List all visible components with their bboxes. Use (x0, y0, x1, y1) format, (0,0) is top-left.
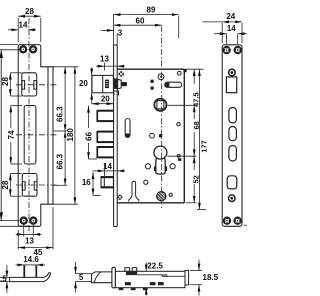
dim 14 top (8, 28, 36, 31)
middle view: small circle left of cylinder (145, 164, 150, 169)
dim 28 top (18, 15, 41, 42)
dim 20 vertical (latch height) (90, 68, 93, 104)
svg-text:13: 13 (25, 237, 34, 246)
svg-text:66.3: 66.3 (55, 106, 64, 122)
middle view: dark square right (178, 158, 181, 161)
dim 74 left (9, 106, 22, 165)
svg-text:14: 14 (19, 21, 28, 30)
svg-text:28: 28 (1, 180, 10, 189)
svg-text:14.6: 14.6 (23, 255, 39, 264)
bottom-left view: folded lug (24, 265, 36, 277)
dim 3 faceplate thickness (101, 29, 117, 45)
middle view: top slot with dark end (165, 82, 182, 87)
dim 66.3 upper right of strike plate (53, 67, 78, 131)
dim 14 deadbolt to plate (93, 163, 125, 176)
svg-text:13: 13 (100, 55, 109, 64)
dim .5 plate thickness (0, 265, 10, 293)
middle right: extension lines (186, 69, 207, 209)
middle view: deadbolt block (101, 177, 113, 188)
middle view: bolt stack rect 3 (97, 146, 113, 158)
svg-text:60: 60 (136, 17, 145, 26)
middle view: small circles mid left (150, 133, 155, 138)
right view: slot 1 (229, 108, 237, 123)
dim 45 bottom (18, 207, 53, 250)
dim 14.6 (16, 264, 46, 267)
svg-text:24: 24 (226, 12, 235, 21)
middle view: trumpet tab (129, 181, 139, 201)
svg-text:28: 28 (1, 77, 10, 86)
case top-right corner mark (183, 69, 186, 72)
middle view: small circle near knurl (169, 193, 172, 196)
svg-text:66: 66 (85, 132, 94, 141)
left view: bottom screw holes (21, 218, 37, 224)
svg-text:68: 68 (192, 121, 201, 129)
left edge cut-off dimension line (0, 50, 3, 221)
middle view: vertical centerline through hub/cylinder (161, 26, 163, 210)
middle view: small circle top right (178, 71, 182, 75)
left view: top screw holes (20, 46, 36, 52)
dim 14 right view (214, 32, 247, 44)
middle view: small circle right (177, 123, 180, 126)
middle view: latch bolt box (92, 75, 127, 95)
middle view: top screw on faceplate (119, 71, 124, 76)
middle view: bolt stack rect 2 (97, 131, 113, 143)
svg-text:66.3: 66.3 (55, 153, 64, 169)
middle view: upper slot (125, 119, 130, 138)
dim 180 right of strike plate (53, 67, 78, 204)
dim 28 left lower (9, 174, 22, 197)
middle view: small squares top (151, 80, 154, 83)
right view: deadbolt window (227, 176, 237, 189)
bottom-middle view: interior line and notch (137, 275, 185, 277)
bottom-left view: strike plate profile (10, 273, 51, 282)
dim 60 (114, 24, 162, 27)
dim 52 (193, 156, 196, 203)
right view: upper screw hole with dot (229, 69, 236, 76)
svg-text:16: 16 (82, 178, 91, 187)
right view: corner tick (244, 224, 248, 226)
bottom-middle view: latch bolt top view (92, 272, 119, 283)
dim 68 (193, 105, 196, 156)
middle view: small circle above knurl (144, 180, 148, 184)
dim 47.5 (193, 69, 196, 105)
middle view: lock case outline (117, 69, 184, 203)
right view: slot 2 (229, 127, 237, 141)
dim 22.5 (145, 262, 148, 295)
dim 89 (114, 13, 179, 45)
svg-text:28: 28 (25, 7, 34, 16)
dim 66.3 lower right of strike plate (53, 131, 67, 185)
middle view: bolt stack rect 1 (97, 110, 113, 122)
right view: bottom screws (224, 218, 241, 224)
dim 28 left upper (9, 73, 22, 96)
middle view: small circle lower right (170, 164, 175, 169)
dim 18.5 (190, 260, 202, 296)
middle view: follower hub (154, 99, 166, 111)
left view: deadbolt cutout middle (24, 106, 36, 165)
bottom-middle view: case body (115, 271, 185, 287)
middle view: cylinder extension line (168, 155, 197, 157)
middle view: knurled adjuster (157, 192, 166, 201)
svg-text:177: 177 (200, 140, 209, 153)
bottom-middle view: right end cap (185, 270, 189, 285)
svg-text:20: 20 (79, 79, 88, 88)
svg-text:89: 89 (147, 6, 156, 15)
svg-text:22.5: 22.5 (147, 262, 163, 271)
left edge cut-off dimension extensions (0, 45, 29, 227)
right view: slot 3 (229, 146, 237, 161)
svg-text:20: 20 (101, 95, 110, 104)
dim 20 horizontal (92, 102, 114, 105)
dim 5 latch height (74, 262, 91, 293)
left view: latch cutout top (22, 73, 37, 96)
left view: latch cutout bottom (22, 174, 37, 197)
svg-text:14: 14 (227, 24, 236, 33)
right view: top screws (224, 47, 241, 53)
svg-text:3: 3 (118, 29, 123, 38)
dim 13 bottom (16, 224, 42, 237)
bottom-middle view: dark band (126, 272, 137, 275)
bottom-middle view: faceplate bar (112, 267, 116, 288)
svg-text:5: 5 (79, 273, 84, 282)
right view: faceplate front (222, 45, 242, 227)
middle view: tiny circle on cylinder ext (177, 154, 180, 157)
left view: vertical centerline (28, 18, 30, 233)
right view: latch window (226, 77, 236, 93)
middle view: cylinder retaining screw (158, 74, 164, 80)
middle view: faceplate (114, 45, 118, 227)
svg-text:180: 180 (66, 128, 75, 142)
middle view: bottom screw on faceplate (117, 195, 122, 200)
bottom-middle view: interior dark rects (125, 282, 164, 285)
middle view: hub extension line (168, 104, 197, 106)
svg-text:18.5: 18.5 (203, 273, 219, 282)
left view: strike plate outline (18, 45, 53, 227)
svg-text:.5: .5 (0, 274, 7, 283)
svg-text:14: 14 (103, 162, 112, 171)
left view: horizontal centerlines (16, 84, 58, 86)
svg-text:74: 74 (7, 130, 16, 139)
bottom-middle view: top bumps (125, 268, 137, 272)
middle view: euro cylinder (154, 146, 167, 174)
bottom-middle view: bottom tabs (119, 288, 148, 290)
dim 177 (198, 69, 201, 209)
dim 13 latch to plate (96, 63, 125, 71)
dim 16 (92, 172, 101, 195)
dim 66 middle (87, 106, 97, 159)
dim 24 (203, 21, 243, 44)
right view: lower screw hole with dot (229, 195, 236, 202)
